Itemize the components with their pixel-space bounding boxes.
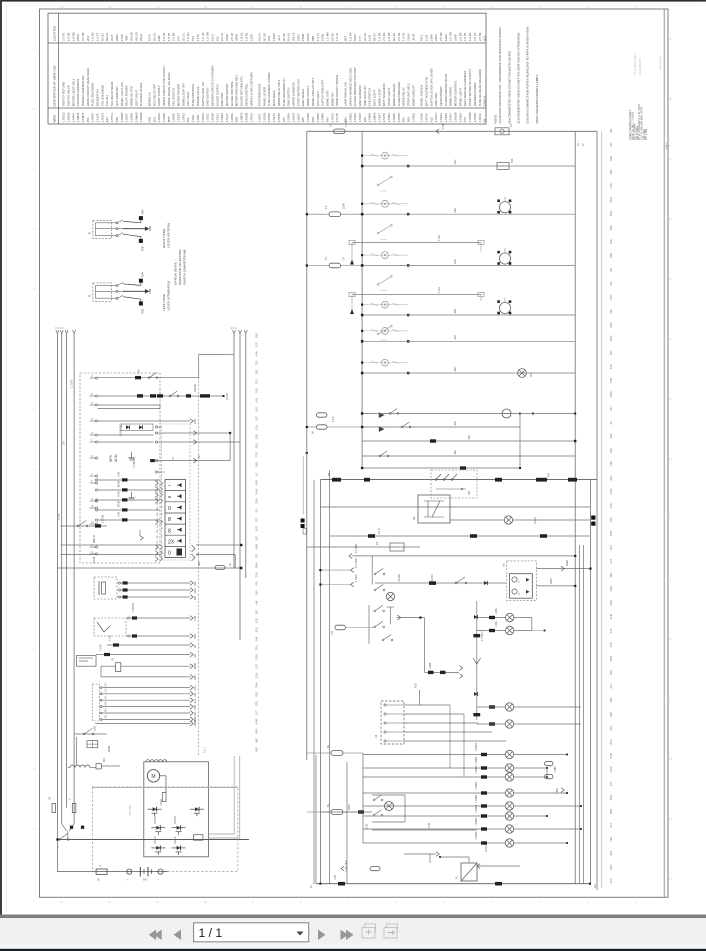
svg-text:2.5T63: 2.5T63 — [330, 113, 334, 122]
sense wire group rows — [95, 479, 97, 481]
svg-text:20S: 20S — [255, 526, 259, 531]
svg-text:1.0 T8: 1.0 T8 — [167, 32, 171, 41]
legend table header column divider — [58, 13, 60, 124]
svg-text:1.5L27: 1.5L27 — [225, 113, 229, 122]
svg-text:25H: 25H — [255, 572, 259, 577]
svg-text:1.5F53: 1.5F53 — [181, 113, 185, 122]
panel output chevrons — [192, 545, 196, 552]
svg-text:1.5 M9: 1.5 M9 — [326, 32, 330, 41]
svg-text:DESCRIPTION OF WIRE USE: DESCRIPTION OF WIRE USE — [53, 65, 57, 106]
svg-text:START SUPPLY: START SUPPLY — [157, 85, 161, 106]
left feeder arrows top — [56, 330, 59, 334]
svg-text:40C: 40C — [453, 421, 457, 426]
svg-text:GAUGE CONTROL: GAUGE CONTROL — [230, 81, 234, 107]
left hand lever switch S1 dashed enclosure — [93, 283, 111, 301]
svg-text:R56: R56 — [407, 117, 411, 123]
left rail bottoms — [315, 755, 317, 884]
pilot contact below row y=265.5 — [377, 284, 379, 286]
pin stub y=553 — [155, 551, 158, 556]
svg-text:SWITCH FEED OPT: SWITCH FEED OPT — [321, 79, 325, 106]
svg-text:1.5B: 1.5B — [366, 824, 369, 829]
svg-text:1.0M45: 1.0M45 — [76, 112, 80, 122]
svg-text:J59: J59 — [86, 117, 90, 122]
svg-text:DOME RH: DOME RH — [330, 93, 334, 107]
svg-text:2.5 L9: 2.5 L9 — [220, 33, 224, 41]
right hand lever switch S2 contact set — [116, 222, 118, 224]
pin wire B1 — [98, 434, 154, 436]
svg-text:4M5: 4M5 — [125, 35, 129, 41]
svg-text:PANEL LIGHT: PANEL LIGHT — [458, 88, 462, 107]
motor enclosure box — [144, 762, 209, 857]
svg-text:7 RPM: 7 RPM — [131, 603, 135, 612]
svg-text:WIPER CIRCUIT STD SUPPLY: WIPER CIRCUIT STD SUPPLY — [162, 66, 166, 107]
svg-text:LNB: LNB — [117, 512, 121, 517]
left rail 3b — [313, 480, 315, 884]
svg-text:HEAD POWER: HEAD POWER — [439, 87, 443, 107]
fuse wire AJL — [107, 644, 190, 646]
svg-text:D7-28: D7-28 — [262, 33, 266, 41]
svg-text:MOTOR POWER: MOTOR POWER — [177, 84, 181, 106]
svg-text:1.5WOL: 1.5WOL — [476, 756, 478, 765]
chain resistor 2 — [473, 713, 480, 716]
svg-text:1.0W12: 1.0W12 — [62, 112, 66, 122]
svg-text:16R9: 16R9 — [429, 34, 433, 41]
relay coil mid — [502, 409, 511, 418]
svg-text:2.5D18: 2.5D18 — [220, 113, 224, 123]
svg-text:1.0C91: 1.0C91 — [157, 113, 161, 123]
right stacked fuse ovals — [545, 762, 554, 766]
lower relay with lamp — [385, 802, 394, 811]
svg-text:34M: 34M — [255, 718, 259, 724]
svg-text:18T3: 18T3 — [147, 34, 151, 41]
svg-text:15S: 15S — [255, 379, 259, 384]
top supply bus — [307, 130, 597, 132]
svg-text:11P: 11P — [157, 546, 159, 550]
svg-text:2 VWA4: 2 VWA4 — [132, 458, 136, 468]
relay module box — [418, 495, 450, 523]
svg-text:WIRE: WIRE — [53, 115, 57, 123]
battery terminal circle — [158, 869, 163, 874]
svg-text:1.0 R8: 1.0 R8 — [71, 32, 75, 41]
svg-text:81H: 81H — [255, 333, 259, 338]
svg-text:59A: 59A — [255, 682, 259, 687]
sender wire F22 — [96, 654, 190, 656]
relay row wire A2 — [98, 395, 224, 397]
svg-text:P6-1: P6-1 — [420, 35, 424, 41]
svg-text:A7: A7 — [171, 456, 175, 460]
svg-text:BAT: BAT — [143, 879, 148, 882]
svg-text:30R: 30R — [255, 590, 259, 595]
left bus wire 1 — [56, 334, 58, 840]
svg-text:1.0G73: 1.0G73 — [100, 112, 104, 122]
diode pack 1 AMP DIO — [121, 424, 153, 430]
svg-text:F96: F96 — [326, 117, 330, 122]
svg-text:N: N — [34, 827, 36, 831]
svg-text:71E: 71E — [609, 837, 613, 842]
svg-text:1.0J65: 1.0J65 — [125, 113, 129, 122]
svg-text:E: E — [34, 287, 36, 291]
svg-text:X4: X4 — [374, 734, 378, 738]
svg-text:10B: 10B — [609, 253, 613, 258]
registration cross right border — [663, 145, 670, 147]
svg-text:WNB: WNB — [117, 501, 121, 507]
connector fan wire 2 — [404, 713, 464, 715]
svg-text:LEVER (STANDARD): LEVER (STANDARD) — [167, 281, 171, 311]
svg-text:GND LIGHT RH: GND LIGHT RH — [363, 86, 367, 107]
red feed arrow 3 — [351, 582, 354, 587]
svg-text:GND COIL: GND COIL — [434, 92, 438, 106]
bus junction dots — [361, 165, 363, 167]
mid row 536 — [330, 535, 591, 537]
svg-text:WNB: WNB — [117, 481, 121, 487]
svg-text:WNB: WNB — [107, 746, 111, 752]
short row 2 — [362, 426, 520, 428]
svg-text:22P3: 22P3 — [296, 34, 300, 41]
pin stub y=522 — [155, 520, 158, 525]
toolbar next-view icon — [384, 928, 397, 939]
lamp pair tail wire — [532, 630, 545, 632]
svg-text:MOTOR LIGHT NO.2: MOTOR LIGHT NO.2 — [71, 78, 75, 106]
svg-text:1.0W97: 1.0W97 — [120, 112, 124, 122]
svg-text:A B C D: A B C D — [55, 327, 64, 330]
svg-text:C4: C4 — [342, 257, 346, 261]
svg-text:29H2: 29H2 — [139, 34, 143, 41]
svg-text:SWITCH VALVE: SWITCH VALVE — [66, 85, 70, 106]
unit output wire C2 — [162, 441, 240, 443]
resistor wire — [101, 665, 116, 667]
svg-text:87F: 87F — [105, 682, 108, 687]
svg-text:1.0F69: 1.0F69 — [91, 113, 95, 122]
bridge internal verticals — [154, 816, 156, 824]
short rows connector vertical — [519, 414, 521, 469]
svg-text:GND HARNESS: GND HARNESS — [358, 85, 362, 106]
page edge shadow line — [5, 2, 7, 917]
lamp bank row 6 — [363, 815, 505, 817]
long cross wire 1b — [196, 544, 241, 546]
svg-text:7404614-A: 7404614-A — [659, 55, 663, 70]
head lamp pair A — [505, 703, 513, 711]
supply fuse — [334, 129, 346, 134]
svg-text:98B: 98B — [609, 809, 613, 814]
svg-text:28B2: 28B2 — [115, 34, 119, 41]
svg-text:6.7RD: 6.7RD — [431, 574, 434, 581]
svg-text:W2-28: W2-28 — [130, 32, 134, 41]
svg-text:1.0 R4: 1.0 R4 — [348, 32, 352, 41]
svg-text:BRAKE LH: BRAKE LH — [147, 92, 151, 106]
svg-text:5T4: 5T4 — [191, 36, 195, 41]
start lamp — [386, 592, 394, 600]
svg-text:WDM: WDM — [225, 392, 229, 400]
svg-text:G: G — [670, 397, 672, 401]
sensor output wires — [118, 582, 120, 584]
svg-text:HORN CIRCUIT REAR FEED: HORN CIRCUIT REAR FEED — [86, 68, 90, 106]
lower wire 830 — [372, 829, 477, 831]
rail 583 — [583, 545, 585, 884]
svg-text:1950: 1950 — [556, 787, 559, 793]
svg-text:A3-24: A3-24 — [258, 33, 262, 41]
svg-text:DOME SIGNAL: DOME SIGNAL — [449, 86, 453, 106]
svg-text:1.5 T4: 1.5 T4 — [316, 32, 320, 41]
temp sensor element — [97, 622, 104, 632]
svg-text:1.5S29: 1.5S29 — [353, 113, 357, 123]
right hand lever switch S2 terminal upper — [139, 216, 143, 220]
svg-text:1 / 1: 1 / 1 — [199, 926, 223, 940]
svg-text:60L: 60L — [609, 308, 613, 313]
ignition row comp 1 — [332, 478, 341, 482]
svg-text:2.5 R9: 2.5 R9 — [439, 32, 443, 41]
svg-text:2.5C99: 2.5C99 — [267, 113, 271, 123]
svg-text:35W: 35W — [609, 335, 613, 341]
svg-text:WIPER HARNESS: WIPER HARNESS — [292, 82, 296, 106]
toolbar first-page button — [149, 930, 157, 941]
svg-text:G70: G70 — [147, 116, 151, 122]
svg-text:SENDER POWER: SENDER POWER — [473, 83, 477, 107]
svg-text:11: 11 — [156, 5, 159, 9]
merge terminal blocks — [70, 826, 73, 829]
svg-text:61H: 61H — [255, 425, 259, 430]
svg-text:2-4B: 2-4B — [441, 123, 445, 129]
fuse 1.5 A left rail — [329, 212, 341, 217]
svg-text:6AW: 6AW — [348, 804, 351, 810]
svg-text:12C: 12C — [453, 160, 457, 165]
svg-text:D: D — [670, 217, 672, 221]
svg-text:L5B: L5B — [148, 226, 152, 231]
svg-text:43M: 43M — [609, 585, 613, 591]
svg-text:64B: 64B — [255, 636, 259, 641]
svg-text:M: M — [151, 774, 155, 780]
return bus wire 3 — [245, 334, 247, 578]
svg-text:1.0 H1: 1.0 H1 — [162, 32, 166, 41]
svg-text:98B: 98B — [609, 656, 613, 661]
series resistor — [96, 764, 101, 769]
svg-text:FLASHER LEVER: FLASHER LEVER — [139, 83, 143, 107]
pin stub y=483 — [155, 481, 158, 486]
return bus wire 2 — [239, 334, 241, 640]
relay module row lamp — [504, 516, 512, 524]
svg-text:W5-22: W5-22 — [292, 32, 296, 41]
svg-text:13J6: 13J6 — [368, 34, 372, 41]
left rail 3 — [329, 470, 331, 884]
flasher unit on row y=265.5 — [499, 253, 510, 264]
svg-text:1.5F23: 1.5F23 — [249, 113, 253, 122]
svg-text:LAMP SIGNAL RH: LAMP SIGNAL RH — [343, 82, 347, 106]
battery cells — [139, 867, 141, 876]
svg-text:C74: C74 — [463, 117, 467, 123]
speed sensor dashed box — [94, 577, 117, 599]
red feed arrow 2 — [351, 568, 354, 573]
svg-text:13S: 13S — [255, 664, 259, 669]
svg-text:40A: 40A — [255, 351, 259, 356]
svg-text:22W6: 22W6 — [306, 33, 310, 41]
svg-text:(D) GRN CONNECTION PORTS ADJA: (D) GRN CONNECTION PORTS ADJACENT TO APP… — [526, 27, 530, 124]
svg-text:17S5: 17S5 — [120, 34, 124, 41]
svg-text:1.5 H2: 1.5 H2 — [201, 32, 205, 41]
left hand lever switch S1 terminal lower — [139, 302, 143, 306]
svg-text:2C4: 2C4 — [86, 35, 90, 41]
right outer bus companion — [601, 131, 603, 888]
relay row group at y=214.2 — [362, 203, 408, 205]
svg-text:12D9: 12D9 — [249, 34, 253, 41]
svg-text:C: C — [670, 157, 672, 161]
svg-text:68R: 68R — [157, 529, 159, 533]
svg-text:GAUGE BREAKER STD UNIT: GAUGE BREAKER STD UNIT — [353, 67, 357, 106]
svg-text:NNB: NNB — [117, 491, 121, 497]
svg-text:0: 0 — [168, 551, 171, 557]
svg-text:SEAT LIGHT: SEAT LIGHT — [134, 89, 138, 106]
svg-text:1.5W: 1.5W — [57, 513, 61, 520]
svg-text:29DB: 29DB — [193, 720, 197, 727]
svg-text:2.5 D1: 2.5 D1 — [397, 32, 401, 41]
svg-text:1.5W: 1.5W — [438, 235, 441, 241]
svg-text:2.5K33: 2.5K33 — [439, 113, 443, 123]
right feeder arrows top — [233, 330, 236, 334]
bottom risers right — [589, 480, 591, 884]
brake switch wire — [75, 733, 107, 735]
svg-text:40L: 40L — [193, 698, 197, 703]
svg-text:PANEL LEVER: PANEL LEVER — [262, 87, 266, 106]
svg-text:WNB: WNB — [193, 663, 197, 669]
svg-text:96E: 96E — [255, 462, 259, 467]
svg-text:86D: 86D — [609, 600, 613, 605]
svg-text:15A: 15A — [511, 158, 514, 163]
supply arrow — [436, 129, 439, 134]
warning icon panel — [165, 480, 186, 558]
svg-text:22L: 22L — [609, 267, 613, 272]
return bus wire 1 — [233, 334, 235, 568]
svg-text:1.0K37: 1.0K37 — [296, 113, 300, 123]
fan risers — [449, 705, 451, 768]
svg-text:1M9: 1M9 — [157, 35, 161, 41]
svg-text:22C: 22C — [453, 259, 457, 264]
sub wire above row y=315.0 — [352, 294, 481, 296]
fuel sender unit — [77, 656, 97, 667]
svg-text:66J: 66J — [255, 406, 259, 411]
svg-text:MOTOR MOTOR: MOTOR MOTOR — [225, 84, 229, 106]
svg-text:CAB LH: CAB LH — [483, 96, 487, 106]
svg-text:35A: 35A — [255, 498, 259, 503]
svg-text:8: 8 — [168, 528, 171, 534]
chain resistor — [473, 634, 480, 637]
mosfet Q3 — [151, 827, 156, 829]
gray return horizontals to bridge — [208, 833, 234, 835]
relay row wire A1 — [98, 377, 199, 379]
svg-text:600: 600 — [103, 757, 106, 762]
svg-text:15M8: 15M8 — [301, 33, 305, 41]
svg-text:84C: 84C — [255, 738, 259, 743]
svg-text:12R: 12R — [157, 479, 159, 483]
left rail 2 — [319, 480, 321, 884]
cluster bottom wire — [425, 671, 459, 673]
sub wire above row y=265.5 — [352, 242, 481, 244]
svg-text:76T: 76T — [255, 517, 259, 522]
svg-text:2.5S28: 2.5S28 — [162, 113, 166, 123]
svg-text:74P: 74P — [255, 581, 259, 586]
svg-text:1.5T64: 1.5T64 — [110, 113, 114, 122]
svg-text:55D: 55D — [609, 197, 613, 202]
svg-text:14.1: 14.1 — [203, 747, 207, 753]
svg-text:1.0 F5: 1.0 F5 — [463, 32, 467, 41]
svg-text:1.5 RED: 1.5 RED — [354, 544, 358, 554]
svg-text:1.0 A2: 1.0 A2 — [240, 32, 244, 41]
svg-text:31C: 31C — [453, 335, 457, 340]
svg-text:2.5 H7: 2.5 H7 — [473, 32, 477, 41]
starter relay inner box — [509, 574, 532, 599]
svg-text:50E: 50E — [255, 627, 259, 632]
svg-text:4BB: 4BB — [197, 561, 201, 566]
svg-text:BATT SOLENOID STD: BATT SOLENOID STD — [424, 77, 428, 106]
unit output wire C3 — [150, 460, 230, 462]
svg-text:2.5 J8: 2.5 J8 — [230, 33, 234, 41]
drive wire switch — [58, 839, 60, 841]
svg-text:TAIL RELAY REAR: TAIL RELAY REAR — [110, 82, 114, 107]
svg-text:10H: 10H — [609, 169, 613, 174]
svg-text:43P: 43P — [255, 747, 259, 752]
lamp bank row 1 — [363, 754, 505, 756]
svg-text:HEAD CONTROL: HEAD CONTROL — [244, 83, 248, 106]
svg-text:ALARM GROUND REAR: ALARM GROUND REAR — [444, 74, 448, 106]
svg-text:30A: 30A — [529, 372, 533, 377]
svg-text:2 COM: 2 COM — [101, 514, 105, 523]
svg-text:42B: 42B — [157, 507, 159, 511]
left bus wire 3 — [66, 334, 68, 804]
svg-text:53B: 53B — [609, 753, 613, 758]
svg-text:1 F22: 1 F22 — [99, 644, 103, 651]
svg-text:1.5R17: 1.5R17 — [358, 113, 362, 123]
svg-text:2.5 E8: 2.5 E8 — [458, 32, 462, 41]
svg-text:SCHEMATIC: SCHEMATIC — [638, 57, 642, 75]
svg-text:2.5C65: 2.5C65 — [397, 113, 401, 123]
lamp bank row 8 — [363, 842, 505, 844]
left bus wire 4 — [73, 334, 75, 824]
svg-text:B: B — [87, 295, 91, 297]
left hand lever switch S1 contact set — [116, 284, 118, 286]
svg-text:DOME SUPPLY: DOME SUPPLY — [306, 86, 310, 107]
relay row riser — [198, 354, 200, 377]
svg-text:DOME CIRCUIT: DOME CIRCUIT — [411, 85, 415, 106]
short row 5 — [362, 467, 520, 469]
svg-text:45M: 45M — [255, 543, 259, 549]
svg-text:1.0W98: 1.0W98 — [468, 112, 472, 122]
bridge series resistor — [194, 835, 203, 841]
svg-text:H1-26: H1-26 — [100, 33, 104, 41]
svg-text:2.5M74: 2.5M74 — [81, 112, 85, 122]
svg-text:1.5WR: 1.5WR — [69, 379, 73, 388]
svg-text:E56: E56 — [402, 117, 406, 123]
svg-text:B: B — [670, 97, 672, 101]
bottom bus comp 1 — [338, 882, 345, 886]
svg-text:TO3B: TO3B — [92, 556, 96, 563]
svg-text:21M: 21M — [609, 613, 613, 619]
pilot contact below row y=315.0 — [377, 333, 379, 335]
svg-text:12T: 12T — [609, 559, 613, 564]
svg-text:GND SIGNAL: GND SIGNAL — [301, 88, 305, 106]
svg-text:1.5WOL: 1.5WOL — [476, 817, 478, 826]
svg-text:11J5: 11J5 — [424, 35, 428, 41]
svg-text:BATT SOLENOID: BATT SOLENOID — [382, 83, 386, 106]
svg-text:1.5P44: 1.5P44 — [71, 113, 75, 123]
connector fan wire 3 — [404, 722, 478, 724]
svg-text:29A: 29A — [193, 581, 197, 586]
svg-text:A67: A67 — [282, 117, 286, 123]
svg-text:10: 10 — [204, 5, 208, 9]
head lamp pair B — [505, 720, 513, 728]
svg-text:W91: W91 — [235, 116, 239, 122]
mosfet Q1 — [148, 808, 153, 810]
fuse row 547 — [307, 546, 420, 548]
svg-text:1.5WL: 1.5WL — [495, 620, 498, 628]
page top shadow line — [6, 5, 702, 7]
svg-text:10: 10 — [204, 900, 208, 904]
